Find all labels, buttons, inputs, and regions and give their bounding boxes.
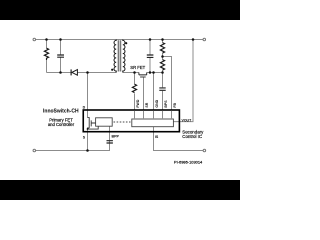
svg-text:and Controller: and Controller [48,122,75,127]
pin wires into secondary block [135,111,172,119]
transistor SR FET symbol [139,73,147,75]
secondary controller block [132,119,174,127]
resistor feedback lower [160,60,164,71]
wire: drain D vertical to IC [87,73,89,118]
wire: divider leads [162,40,164,73]
wire: BPP pin lead [109,126,111,140]
transformer primary winding [114,40,116,73]
node: primary phase dot [111,69,113,71]
svg-text:FWD: FWD [136,99,140,107]
resistor feedback upper [160,43,164,53]
node: VOUT branch junction [192,38,195,41]
svg-text:FB: FB [173,102,177,107]
svg-text:IS: IS [155,135,159,139]
svg-text:SR: SR [145,102,149,107]
wire: output cap leads [149,40,151,73]
resistor clamp R [44,48,48,60]
wire: FB tap to FB pin [163,57,172,120]
wire: FWD branch leads [134,73,136,120]
svg-text:BPS: BPS [164,100,168,108]
terminal: RTN [203,149,206,152]
diode blocking (cathode left) [70,69,72,75]
wire: BPS branch leads [162,73,164,120]
primary FET inside IC [88,118,99,130]
svg-text:Control IC: Control IC [182,134,202,139]
wire: clamp cap leads [60,40,62,73]
wire: S pin to primary return rail [87,129,89,151]
capacitor clamp C plates [57,55,64,57]
svg-text:BPP: BPP [112,134,120,138]
svg-text:PI-6986-103014: PI-6986-103014 [174,160,203,165]
svg-text:InnoSwitch-CH: InnoSwitch-CH [43,109,79,115]
svg-text:VOUT: VOUT [182,118,193,122]
node: FWD tap junction [133,71,136,74]
wire: diode anode to primary winding bottom [77,72,116,74]
node: clamp R top junction [45,38,48,41]
node: clamp C top junction [59,38,62,41]
node: divider bottom junction [161,71,164,74]
node: S rail junction [86,149,89,152]
wire: primary return rail [36,141,110,151]
node: divider tap junction [161,55,164,58]
wire: secondary bottom to SR FET [123,72,139,74]
top black banner [0,0,240,20]
capacitor BPS plates [159,88,165,90]
svg-text:GND: GND [155,99,159,107]
terminal: VOUT+ [203,38,206,41]
svg-text:D: D [83,105,86,109]
wire: clamp bottom horizontal [47,72,71,74]
transformer secondary winding [123,40,125,73]
capacitor output plates [147,55,154,57]
wire: GND pin lead into IC [153,73,155,120]
svg-text:SR FET: SR FET [130,65,145,70]
capacitor BPP plates [107,141,113,143]
node: output cap top junction [149,38,152,41]
node: gnd pin junction [152,71,155,74]
node: drain junction [86,71,89,74]
IC package box InnoSwitch-CH [83,110,179,132]
resistor FWD series [132,84,136,92]
transformer core lines [118,40,120,71]
node: divider top junction [161,38,164,41]
node: clamp C bottom junction [59,71,62,74]
FluxLink dashed coupling [114,121,131,123]
bottom black banner [0,180,240,200]
wire: top rail [36,39,204,41]
terminal: DC input + [33,38,36,41]
wire: IS pin to RTN rail [154,127,204,151]
node: secondary phase dot [125,42,127,44]
node: FET source dot [87,128,89,130]
wire: secondary gnd line [147,72,163,74]
node: output cap bottom junction [149,71,152,74]
terminal: primary return [33,149,36,152]
wire: clamp resistor leads [46,40,48,73]
wire: SR gate lead into IC [143,77,145,119]
wire: VOUT branch [173,40,193,122]
primary controller block [96,118,113,126]
